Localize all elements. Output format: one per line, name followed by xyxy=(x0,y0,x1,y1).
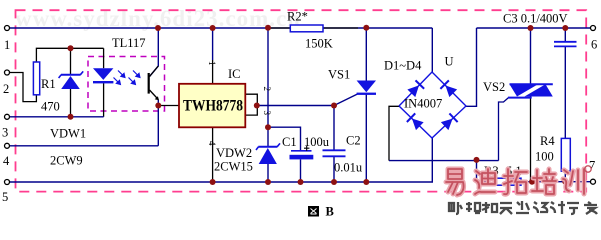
resistor R1 xyxy=(33,62,39,95)
wire pin23 node to C2 node xyxy=(257,105,334,107)
wire top rail left xyxy=(10,27,433,29)
IC TWH8778 box xyxy=(179,84,245,128)
junction gate wire to R3 xyxy=(474,157,480,163)
zener VDW1 xyxy=(59,71,84,89)
wire VS2 gate drop xyxy=(499,98,509,161)
wire bottom rail xyxy=(10,138,433,182)
resistor R3 xyxy=(487,178,521,185)
wire bridge right lead xyxy=(466,28,477,106)
wire IC pin1 xyxy=(212,28,214,60)
wire C2 leads xyxy=(333,106,335,151)
terminal 5 xyxy=(5,180,10,185)
junction IC pins 2-3 bracket xyxy=(254,103,260,109)
svg-text:B: B xyxy=(326,205,334,219)
diode D2 top-right xyxy=(440,80,457,97)
wire gate net horizontal xyxy=(389,160,499,162)
svg-text:C2: C2 xyxy=(346,134,361,148)
svg-text:1: 1 xyxy=(4,38,10,52)
junction emitter/IC pin5/terminal-4 node xyxy=(155,103,161,109)
bridge rectifier diamond xyxy=(399,72,466,138)
diode D1 top-left xyxy=(407,80,424,97)
wire VS1 cathode lead xyxy=(365,95,367,183)
junction on top rail at VS1 anode xyxy=(363,25,369,31)
wire VS2 bottom lead xyxy=(530,97,532,182)
terminal 7 xyxy=(591,179,596,184)
svg-text:VS1: VS1 xyxy=(328,68,350,82)
wire C1 bottom lead xyxy=(300,160,302,183)
svg-text:6: 6 xyxy=(591,38,597,52)
svg-text:R1: R1 xyxy=(41,77,56,91)
junction VDW1 bottom on terminal-3 wire xyxy=(68,114,74,120)
svg-text:5: 5 xyxy=(2,190,8,204)
bridge diodes xyxy=(407,80,458,130)
wire phototransistor emitter down xyxy=(157,100,159,146)
junction bottom rail at VS1 cathode xyxy=(363,179,369,185)
svg-text:4: 4 xyxy=(207,141,217,146)
wire VDW1 top lead xyxy=(70,48,72,74)
svg-text:2CW9: 2CW9 xyxy=(50,154,83,168)
capacitor C2 xyxy=(323,150,346,156)
svg-text:C3 0.1/400V: C3 0.1/400V xyxy=(503,12,568,26)
svg-text:0.01u: 0.01u xyxy=(334,161,363,175)
wire bridge top lead xyxy=(431,28,433,72)
svg-text:2CW15: 2CW15 xyxy=(214,160,253,174)
wire R4 bottom lead xyxy=(564,171,566,182)
wire phototransistor collector xyxy=(150,28,159,77)
svg-text:1: 1 xyxy=(207,61,217,66)
rotated pin numbers xyxy=(207,61,272,146)
svg-text:470: 470 xyxy=(41,100,60,114)
svg-text:IC: IC xyxy=(228,67,241,81)
junction VS1 gate / C2 node xyxy=(331,103,337,109)
wire VDW1 bottom lead xyxy=(70,89,72,117)
junction bottom rail at C2 xyxy=(331,179,337,185)
svg-text:U: U xyxy=(445,55,454,69)
svg-text:7: 7 xyxy=(589,159,595,173)
diode D4 bottom-right xyxy=(441,113,458,130)
junction bottom rail at IC pin 4 xyxy=(210,179,216,185)
wire bridge left vertex down xyxy=(389,106,399,160)
svg-text:VDW1: VDW1 xyxy=(50,127,86,141)
wire emitter junction to IC pin5 xyxy=(158,105,179,107)
terminal 1 xyxy=(5,26,10,31)
wire terminal4 xyxy=(10,145,159,147)
junction on top rail at VDW2/C1 branch xyxy=(265,25,271,31)
wire VS2 top lead xyxy=(530,28,532,84)
svg-text:IN4007: IN4007 xyxy=(404,97,442,111)
inner dashed box TL117 xyxy=(88,57,165,112)
thyristor VS1 xyxy=(357,81,376,95)
svg-text:3: 3 xyxy=(262,111,272,116)
junction node R1/VDW1/LED xyxy=(68,45,74,51)
wire terminal2 to R1 xyxy=(10,73,37,102)
capacitor C3 xyxy=(554,42,577,47)
diode D3 bottom-left xyxy=(407,113,424,130)
junction output wire at VS2 xyxy=(529,179,535,185)
wire VDW2 node to C1 xyxy=(268,127,301,151)
svg-text:150K: 150K xyxy=(305,37,333,51)
junction bottom rail at C1 xyxy=(298,179,304,185)
svg-text:D1~D4: D1~D4 xyxy=(384,59,422,73)
wire VDW2 bottom lead xyxy=(267,164,269,182)
terminal 2 xyxy=(5,70,10,75)
junction on top rail at phototransistor collector xyxy=(155,25,161,31)
svg-text:C1: C1 xyxy=(282,135,297,149)
svg-text:VS2: VS2 xyxy=(483,80,505,94)
svg-text:4: 4 xyxy=(3,154,10,168)
svg-text:VDW2: VDW2 xyxy=(216,146,252,160)
bottom caption 图 B xyxy=(308,206,319,217)
wire top rail right xyxy=(477,27,591,29)
wire R1 top to LED node xyxy=(36,48,103,62)
wire IC pin4 xyxy=(212,127,214,182)
wire terminal3 xyxy=(10,116,104,118)
junction VDW2/C1 node xyxy=(265,124,271,130)
wire LED cathode lead xyxy=(103,83,105,117)
phototransistor xyxy=(148,66,159,100)
wire R3 drop xyxy=(477,160,488,182)
gray watermark 射频和天线设计专家 xyxy=(449,201,597,214)
wire LED anode lead xyxy=(103,48,105,68)
wire VDW2 top lead xyxy=(267,127,269,146)
triac VS2 xyxy=(508,84,553,97)
light arrows xyxy=(114,71,140,85)
terminal 6 xyxy=(591,26,596,31)
resistor R2 xyxy=(290,25,323,32)
wire vertical rail to VDW2 node xyxy=(267,28,269,128)
outer dashed border xyxy=(16,10,587,191)
terminal 3 xyxy=(5,114,10,119)
resistor R4 xyxy=(561,138,570,171)
wire R3 right to terminal7 xyxy=(521,181,591,183)
svg-text:R2*: R2* xyxy=(287,10,308,24)
wire IC pins 2,3 bracket xyxy=(245,94,257,115)
svg-text:2: 2 xyxy=(262,87,272,92)
capacitor C1 electrolytic xyxy=(290,146,314,160)
wire VS1 gate xyxy=(334,94,358,106)
junction output wire at R4 xyxy=(562,179,568,185)
LED of optocoupler xyxy=(93,68,113,83)
junction bottom rail at VDW2 xyxy=(265,179,271,185)
svg-text:TWH8778: TWH8778 xyxy=(183,98,243,115)
svg-text:3: 3 xyxy=(2,126,8,140)
junction on right rail at C3 xyxy=(562,25,568,31)
junction on right rail at VS2 xyxy=(528,25,534,31)
wire C3 to R4 xyxy=(564,46,566,138)
wire C3 top lead xyxy=(564,28,566,42)
svg-text:2: 2 xyxy=(3,82,9,96)
svg-text:TL117: TL117 xyxy=(112,36,146,50)
wire VS1 anode lead xyxy=(365,28,367,81)
svg-text:100u: 100u xyxy=(304,135,330,149)
wire black segments near R2 xyxy=(269,27,290,29)
terminal 4 xyxy=(5,143,10,148)
svg-text:R4: R4 xyxy=(540,134,555,148)
junction on top rail at IC pin 1 xyxy=(210,25,216,31)
svg-text:100: 100 xyxy=(535,150,554,164)
zener VDW2 xyxy=(256,143,280,164)
